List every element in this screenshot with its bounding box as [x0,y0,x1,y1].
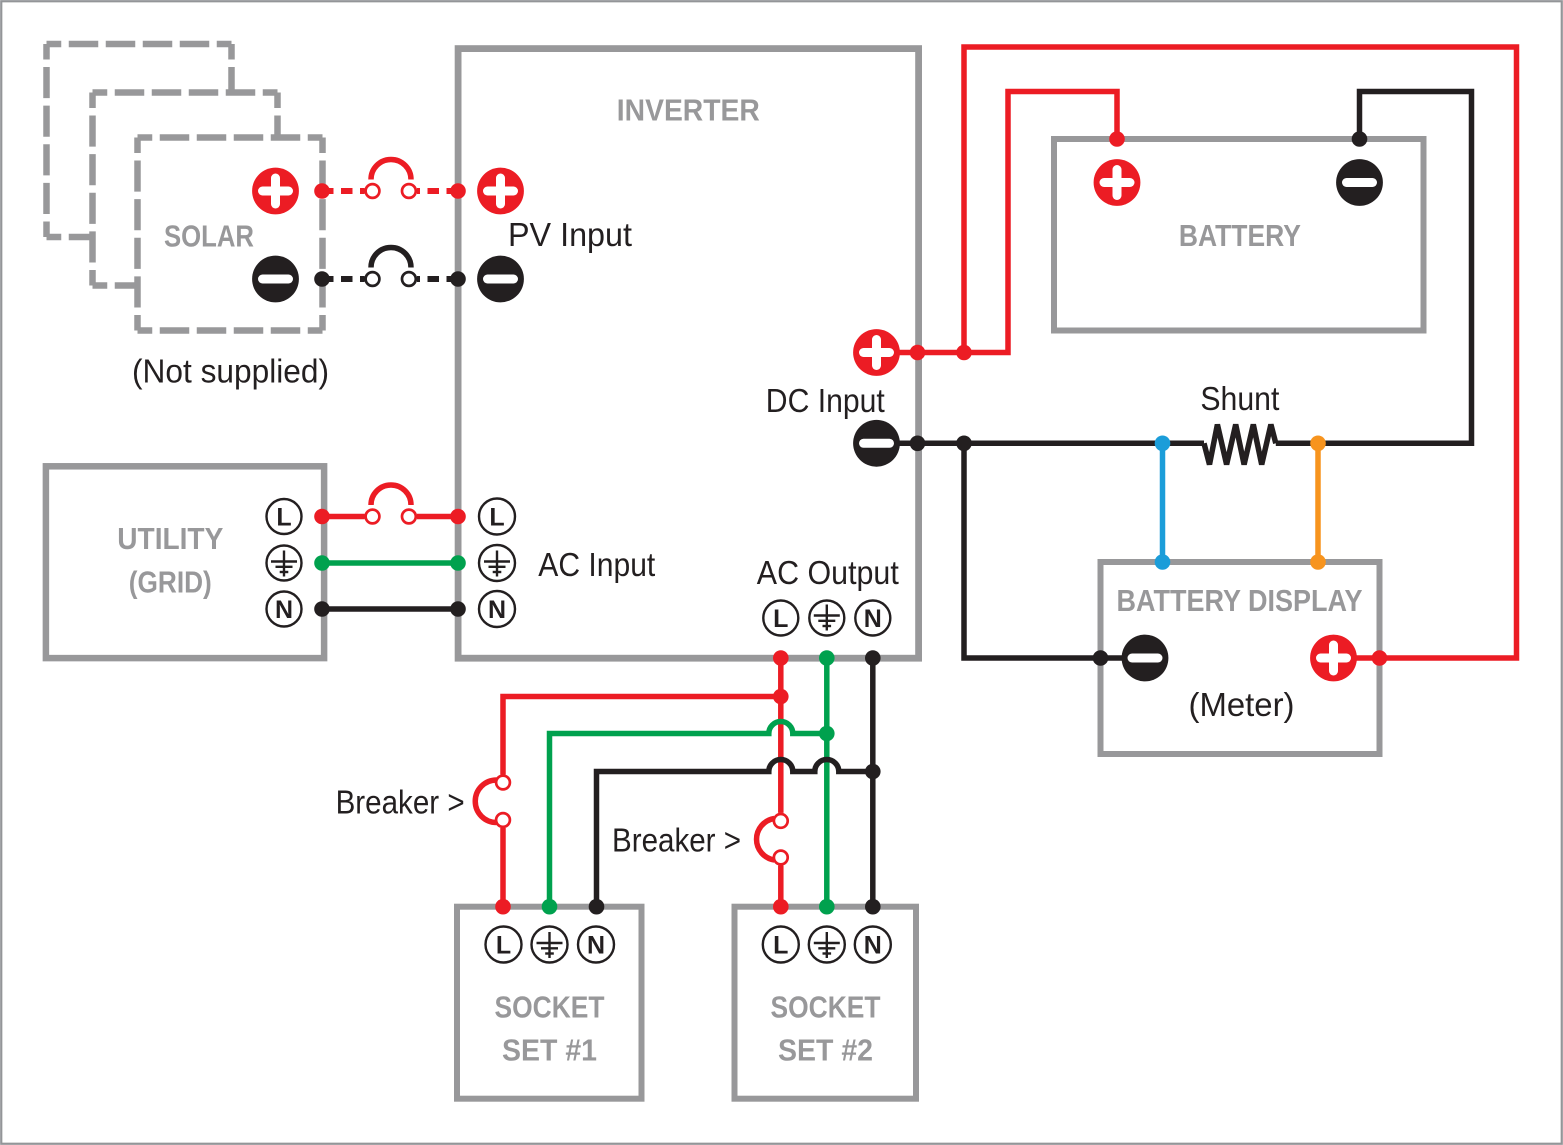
terminal PV input plus [477,168,524,215]
junction dot orange sense at shunt [1310,436,1326,452]
ground symbol utility [271,551,297,577]
svg-text:SOCKET: SOCKET [771,991,881,1025]
solar panel box middle [93,93,278,286]
junction dot AC output L at inverter edge [773,650,789,666]
breaker 2 clip terminal top [774,814,788,828]
wire orange shunt sense [1315,443,1321,562]
terminal solar minus [252,256,299,303]
terminal circle socket 1 ground [532,927,568,963]
svg-text:L: L [773,605,788,633]
junction dot AC input ground at inverter edge [450,555,466,571]
svg-text:DC Input: DC Input [766,382,885,419]
wire utility ground green [322,560,458,566]
svg-text:L: L [489,504,504,532]
wire DC plus red to battery [877,92,1118,353]
svg-text:AC Input: AC Input [538,546,655,583]
svg-text:SOLAR: SOLAR [164,220,254,254]
junction dot utility N at box edge [314,601,330,617]
svg-text:SOCKET: SOCKET [495,991,605,1025]
battery display box [1101,562,1380,754]
fuse arc solar minus [371,248,411,268]
svg-text:N: N [587,932,605,960]
junction dot solar plus at panel edge [314,183,330,199]
terminal battery display plus [1310,635,1357,682]
terminal solar plus [252,168,299,215]
junction dot socket 1 N at box edge [589,899,605,915]
fuse arc solar plus [371,160,411,180]
terminal battery minus [1336,159,1383,206]
terminal circle socket 2 ground [809,927,845,963]
wire utility N black [322,606,458,612]
junction node DC minus to battery display [956,436,972,452]
terminal circle AC output ground [809,601,844,636]
svg-text:(GRID): (GRID) [129,565,212,599]
wire AC output L red down to socket 2 [778,658,784,813]
junction dot AC input L at inverter edge [450,509,466,525]
shunt zigzag [1204,425,1276,465]
breaker 2 clip terminal bottom [774,851,788,865]
svg-text:N: N [864,932,882,960]
svg-text:N: N [488,596,506,624]
junction dot battery plus at box edge [1109,131,1125,147]
terminal circle AC input L [479,499,515,535]
terminal circle utility N [267,592,302,627]
terminal DC input minus [853,420,900,467]
junction dot solar minus at panel edge [314,271,330,287]
terminal DC input plus [853,329,900,376]
svg-text:L: L [276,504,291,532]
junction dot socket 2 ground at box edge [819,899,835,915]
terminal battery plus [1094,159,1141,206]
wire solar plus dashed [322,188,365,194]
junction dot PV minus at inverter edge [450,271,466,287]
junction dot battery display minus at box edge [1093,650,1109,666]
wire AC output green branch to socket 1 with hop [550,722,827,907]
breaker clip terminal right on utility L wire [402,510,416,524]
svg-text:SET #1: SET #1 [502,1034,597,1068]
wire DC minus down to battery display minus [964,443,1148,658]
junction node AC N branch to socket 1 [865,764,881,780]
terminal circle socket 1 N [578,927,614,963]
svg-text:(Meter): (Meter) [1189,686,1295,723]
ground symbol AC output [814,605,840,631]
svg-text:L: L [773,932,788,960]
junction dot battery minus at box edge [1352,131,1368,147]
junction dot AC input N at inverter edge [450,601,466,617]
fuse clip terminal right on solar minus wire [402,272,416,286]
solar panel box front SOLAR [138,138,323,331]
junction dot PV plus at inverter edge [450,183,466,199]
fuse arc utility L [371,485,411,505]
wire DC plus red rail to battery display plus [964,47,1517,658]
ground symbol socket 1 [537,932,563,958]
utility box [46,466,324,658]
svg-text:AC Output: AC Output [757,554,899,591]
breaker 1 arc [475,780,496,823]
svg-text:N: N [275,596,293,624]
fuse clip terminal right on solar plus wire [402,184,416,198]
junction dot orange sense at battery display [1310,554,1326,570]
junction dot blue sense at battery display [1155,554,1171,570]
junction dot DC minus at inverter edge [910,436,926,452]
wire solar minus dashed [322,276,365,282]
wire AC output N black down to socket 2 [870,658,876,907]
junction dot AC output N at inverter edge [865,650,881,666]
svg-text:UTILITY: UTILITY [117,522,223,556]
svg-text:BATTERY: BATTERY [1179,219,1301,253]
terminal circle utility L [267,499,302,534]
junction node AC ground branch to socket 1 [819,726,835,742]
svg-text:PV Input: PV Input [508,216,632,253]
breaker 1 clip terminal bottom [496,813,510,827]
wire shunt line right part + rail to battery minus [1276,92,1472,444]
fuse clip terminal left on solar minus wire [366,272,380,286]
terminal circle utility ground [267,546,302,581]
junction dot battery display plus at box edge [1372,650,1388,666]
wire blue shunt sense [1160,443,1166,562]
svg-text:BATTERY DISPLAY: BATTERY DISPLAY [1117,584,1363,618]
junction dot socket 1 L at box edge [495,899,511,915]
svg-text:SET #2: SET #2 [778,1034,873,1068]
wire AC output L red branch to socket 1 [503,697,781,775]
battery box [1054,139,1424,331]
terminal circle AC input N [479,591,515,627]
breaker clip terminal left on utility L wire [366,510,380,524]
svg-text:L: L [496,932,511,960]
junction dot socket 2 N at box edge [865,899,881,915]
svg-text:Breaker >: Breaker > [336,784,465,821]
socket set 1 box [457,907,642,1099]
wire AC output ground green down to socket 2 [824,658,830,907]
svg-text:N: N [864,605,882,633]
junction node AC L branch to socket 1 [773,689,789,705]
solar panel box back [47,44,232,237]
terminal circle socket 1 L [486,927,522,963]
ground symbol socket 2 [814,932,840,958]
svg-text:INVERTER: INVERTER [617,93,760,127]
junction dot utility L at box edge [314,509,330,525]
breaker 1 clip terminal top [496,776,510,790]
junction dot DC plus at inverter edge [910,345,926,361]
junction dot blue sense at shunt [1155,436,1171,452]
terminal circle AC output N [855,601,890,636]
terminal circle socket 2 N [855,927,891,963]
terminal PV input minus [477,256,524,303]
terminal battery display minus [1122,635,1169,682]
wire DC minus / shunt line left part [877,441,1205,447]
terminal circle AC input ground [479,545,515,581]
ground symbol AC input [484,551,510,577]
wire utility L red [322,514,365,520]
socket set 2 box [735,907,917,1099]
terminal circle socket 2 L [763,927,799,963]
wire AC output black branch to socket 1 with hops [597,760,873,907]
junction node DC plus rail branch [956,345,972,361]
junction dot utility ground at box edge [314,555,330,571]
fuse clip terminal left on solar plus wire [366,184,380,198]
inverter box [458,49,918,659]
junction dot socket 1 ground at box edge [542,899,558,915]
svg-text:Shunt: Shunt [1200,380,1279,417]
junction dot AC output ground at inverter edge [819,650,835,666]
svg-text:(Not supplied): (Not supplied) [132,352,329,389]
junction dot socket 2 L at box edge [773,899,789,915]
svg-text:Breaker >: Breaker > [612,822,741,859]
terminal circle AC output L [763,601,798,636]
breaker 2 arc [757,819,775,861]
